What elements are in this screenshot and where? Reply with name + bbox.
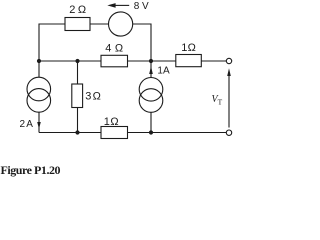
arrow 1A direction	[149, 66, 153, 74]
wire middle horizontal	[39, 60, 226, 62]
arrow 8V polarity	[107, 3, 129, 8]
terminal bottom	[226, 130, 231, 135]
svg-text:1 A: 1 A	[157, 66, 170, 77]
resistor R 1ohm bottom	[101, 127, 128, 139]
arrow VT	[227, 68, 231, 127]
wire 3-ohm branch	[77, 61, 79, 133]
junction node B	[75, 59, 79, 63]
junction node A	[37, 59, 41, 63]
voltage source 8V	[109, 12, 133, 36]
svg-text:VT: VT	[212, 94, 223, 107]
resistor R 4ohm	[101, 55, 128, 67]
wire left branch	[38, 61, 40, 133]
terminal top	[226, 58, 231, 63]
resistor R 1ohm top	[176, 55, 202, 67]
current source 2A	[27, 77, 51, 112]
svg-text:1Ω: 1Ω	[181, 42, 196, 54]
svg-text:Figure P1.20: Figure P1.20	[1, 163, 61, 177]
resistor R 3ohm	[72, 84, 83, 108]
svg-text:8 V: 8 V	[134, 1, 149, 12]
current source 1A	[139, 78, 163, 113]
resistor R 2ohm	[65, 18, 90, 31]
svg-text:2 Ω: 2 Ω	[69, 4, 86, 16]
junction node D	[75, 130, 79, 134]
wire bottom horizontal	[39, 132, 226, 134]
wire right source branch	[150, 61, 152, 133]
wire top loop	[39, 24, 151, 61]
svg-text:3 Ω: 3 Ω	[85, 91, 101, 103]
svg-text:4 Ω: 4 Ω	[105, 43, 123, 55]
arrow 2A direction	[37, 122, 41, 129]
junction node C	[149, 59, 153, 63]
junction node E	[149, 130, 153, 134]
svg-text:2 A: 2 A	[20, 119, 34, 130]
svg-text:1 Ω: 1 Ω	[104, 116, 119, 128]
